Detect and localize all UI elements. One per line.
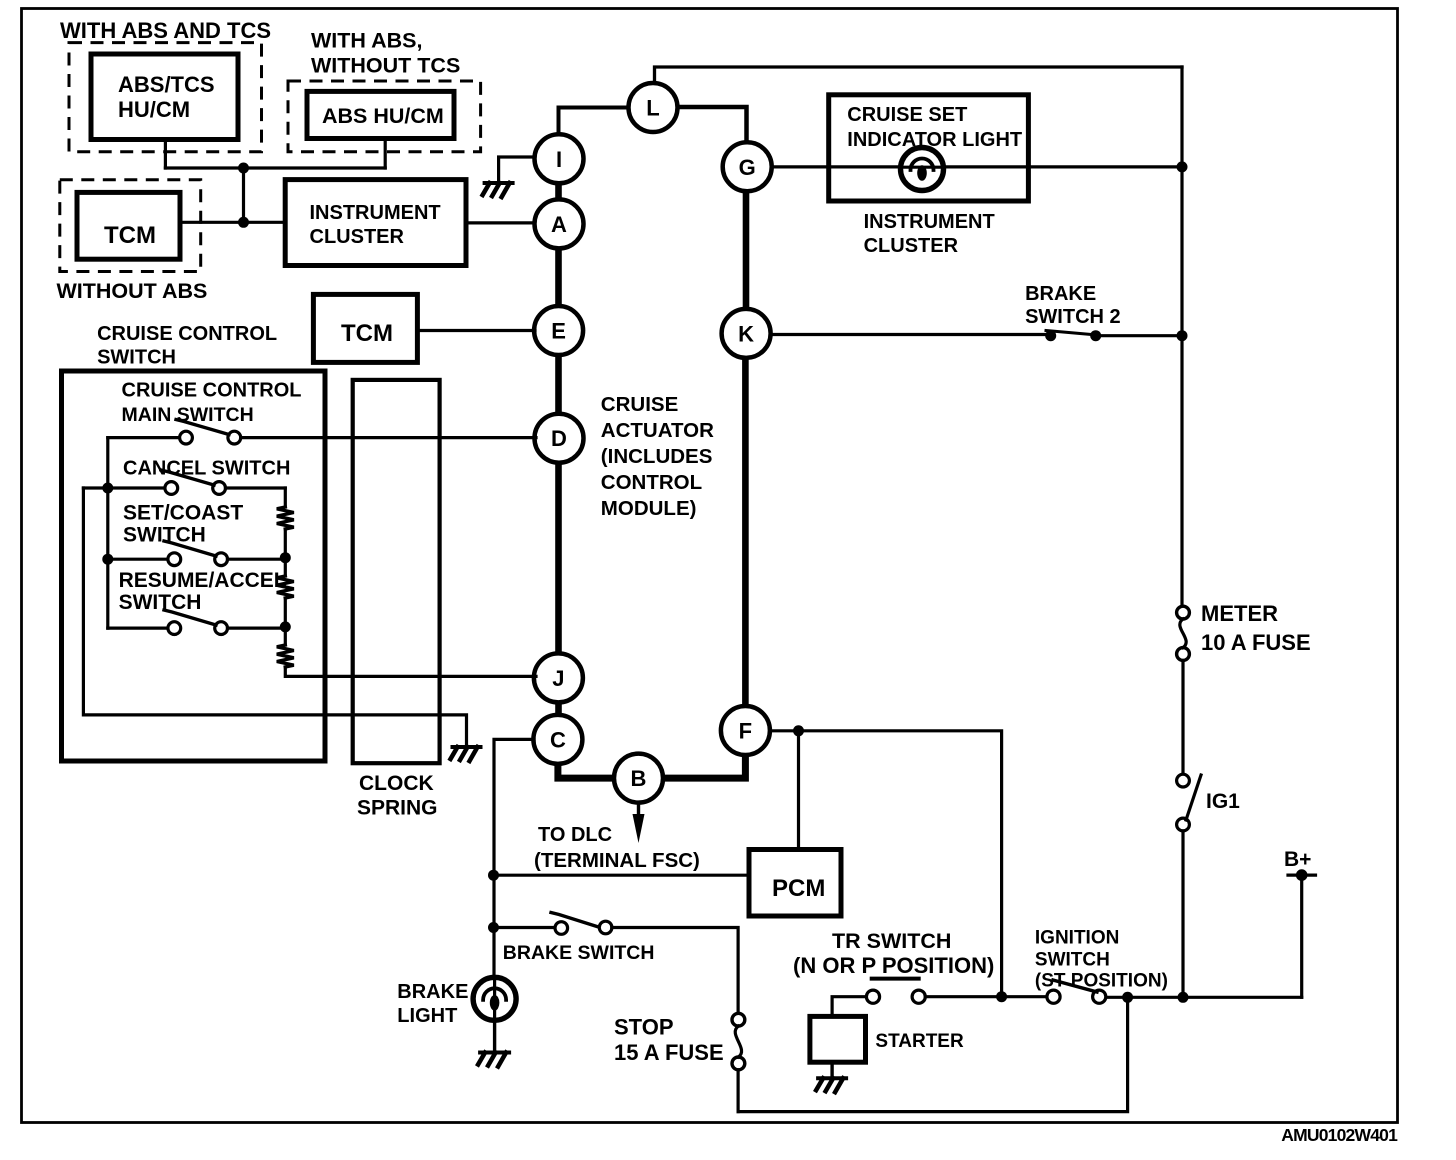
svg-text:10 A FUSE: 10 A FUSE xyxy=(1201,630,1311,655)
fuse: METER 10 A xyxy=(1177,606,1190,619)
switch: brake switch 2 (closed) xyxy=(1046,331,1097,336)
junction: chain/resume-accel xyxy=(280,621,291,632)
svg-text:CRUISE SET: CRUISE SET xyxy=(847,104,967,126)
wire: resistor chain top xyxy=(284,488,287,507)
svg-text:MODULE): MODULE) xyxy=(601,497,697,520)
svg-text:INSTRUMENT: INSTRUMENT xyxy=(864,211,995,233)
switch: set/coast switch xyxy=(168,553,181,566)
wire: B to F xyxy=(661,753,745,778)
wire: ST row horizontal xyxy=(1106,996,1302,999)
block: TCM U2 xyxy=(313,294,417,362)
wire: cancel switch left lead xyxy=(83,486,165,489)
svg-text:INSTRUMENT: INSTRUMENT xyxy=(310,202,441,224)
switch: cancel switch xyxy=(165,482,178,495)
enclosure: cruise control switch xyxy=(62,371,326,761)
block: STARTER xyxy=(810,1016,866,1062)
wire: right bus middle xyxy=(1181,661,1184,775)
wire: resume/accel to resistor chain xyxy=(228,626,286,629)
resistor R1 xyxy=(277,507,294,529)
svg-text:ABS HU/CM: ABS HU/CM xyxy=(322,104,444,128)
junction: brake switch row xyxy=(488,922,499,933)
svg-text:CRUISE CONTROL: CRUISE CONTROL xyxy=(122,380,302,402)
junction: DLC row xyxy=(488,870,499,881)
svg-text:BRAKE SWITCH: BRAKE SWITCH xyxy=(503,942,655,964)
junction: TCM row xyxy=(238,217,249,228)
dashed enclosure: without ABS xyxy=(60,180,201,272)
wire: left column I-A xyxy=(555,181,562,201)
svg-text:CLUSTER: CLUSTER xyxy=(310,226,405,248)
dashed enclosure: with ABS, without TCS xyxy=(288,81,481,152)
svg-text:(N OR P POSITION): (N OR P POSITION) xyxy=(793,953,994,978)
wire: ABS/TCS HU/CM drop xyxy=(164,140,167,169)
arrow: to DLC xyxy=(633,814,645,843)
svg-text:SWITCH: SWITCH xyxy=(119,591,202,614)
svg-text:STOP: STOP xyxy=(614,1015,674,1040)
wire: ground return via clock spring xyxy=(83,488,466,747)
junction: chain/set-coast xyxy=(280,552,291,563)
fuse: STOP 15 A xyxy=(732,1013,745,1026)
svg-text:CLOCK: CLOCK xyxy=(359,772,434,795)
ground: cruise control switch xyxy=(453,745,481,749)
wire: right bus lower xyxy=(1181,831,1184,997)
svg-text:(TERMINAL FSC): (TERMINAL FSC) xyxy=(534,849,700,872)
terminal L xyxy=(629,83,678,132)
wire: TR switch to starter xyxy=(832,997,866,1017)
svg-text:G: G xyxy=(739,155,756,180)
svg-text:SWITCH: SWITCH xyxy=(1035,950,1110,971)
wire: switch common vertical xyxy=(106,438,109,628)
switch: ignition switch ST xyxy=(1047,990,1060,1003)
wire: left column D-J xyxy=(555,461,562,655)
block: TCM U1 xyxy=(77,192,180,259)
wire: main switch left lead xyxy=(108,436,180,439)
wire: instrument cluster to terminal A xyxy=(466,221,536,224)
wire: brake switch 2 to right bus xyxy=(1101,334,1182,337)
wire: main switch to terminal D xyxy=(241,436,536,439)
svg-text:PCM: PCM xyxy=(772,875,825,902)
svg-text:I: I xyxy=(556,147,562,172)
wire: G to indicator lamp xyxy=(772,165,901,168)
svg-text:D: D xyxy=(551,426,567,451)
dashed enclosure: with ABS and TCS xyxy=(69,43,262,152)
svg-text:CANCEL SWITCH: CANCEL SWITCH xyxy=(123,458,290,480)
block: clock spring xyxy=(353,380,440,763)
switch: TR switch (N or P) xyxy=(872,977,919,981)
wire: stop fuse return loop xyxy=(738,997,1128,1111)
terminal B xyxy=(614,754,663,803)
terminal F xyxy=(721,706,770,755)
wire: left column A-E xyxy=(555,246,562,308)
wire: F to K right column xyxy=(742,356,749,708)
terminal E xyxy=(534,306,583,355)
wire: PCM to DLC junction xyxy=(494,874,750,877)
wire: B+ drop xyxy=(1300,875,1303,997)
terminal C xyxy=(533,715,582,764)
svg-text:B: B xyxy=(631,766,647,791)
block: PCM xyxy=(749,850,841,917)
ground: brake light xyxy=(480,1051,509,1055)
ground: starter xyxy=(818,1076,846,1080)
wire: set/coast left lead xyxy=(108,558,168,561)
lamp: cruise set indicator light xyxy=(901,148,944,191)
junction: stop fuse return xyxy=(1122,992,1133,1003)
svg-text:CONTROL: CONTROL xyxy=(601,471,702,494)
svg-text:HU/CM: HU/CM xyxy=(118,97,190,122)
wire: K to G right column xyxy=(743,189,750,311)
svg-text:L: L xyxy=(646,96,659,121)
svg-text:ACTUATOR: ACTUATOR xyxy=(601,419,714,442)
terminal D xyxy=(535,414,584,463)
svg-text:WITHOUT ABS: WITHOUT ABS xyxy=(57,279,208,303)
svg-text:WITHOUT TCS: WITHOUT TCS xyxy=(311,54,460,78)
wire: ABS bus xyxy=(165,166,385,169)
wire: indicator lamp to right bus xyxy=(943,165,1182,168)
svg-text:CLUSTER: CLUSTER xyxy=(864,235,959,257)
svg-text:STARTER: STARTER xyxy=(875,1031,964,1052)
svg-text:SWITCH: SWITCH xyxy=(123,524,206,547)
junction: F row / PCM drop xyxy=(793,725,804,736)
wire: chain R2-R3 xyxy=(284,598,287,645)
block: ABS/TCS HU/CM xyxy=(91,54,238,140)
terminal I xyxy=(535,134,584,183)
wire: starter to ground xyxy=(830,1062,833,1078)
wire: set/coast to resistor chain xyxy=(228,558,286,561)
wire: B to DLC stub xyxy=(637,803,640,814)
svg-text:BRAKE: BRAKE xyxy=(397,981,468,1003)
svg-text:IGNITION: IGNITION xyxy=(1035,928,1119,949)
wire: stop fuse to return loop xyxy=(736,1070,739,1112)
wire: TR switch to ST junction xyxy=(925,995,1001,998)
wire: left column E-D xyxy=(555,353,562,416)
svg-text:J: J xyxy=(552,666,564,691)
wire: F to TR column xyxy=(770,731,1002,991)
svg-text:SWITCH 2: SWITCH 2 xyxy=(1025,306,1121,328)
svg-text:A: A xyxy=(551,212,567,237)
svg-text:TO DLC: TO DLC xyxy=(538,824,612,846)
svg-text:CRUISE: CRUISE xyxy=(601,393,678,416)
svg-text:RESUME/ACCEL: RESUME/ACCEL xyxy=(119,569,287,592)
terminal: B+ xyxy=(1288,873,1316,876)
junction: indicator row / right bus xyxy=(1177,161,1188,172)
svg-text:INDICATOR LIGHT: INDICATOR LIGHT xyxy=(847,129,1022,151)
svg-text:TCM: TCM xyxy=(341,320,393,347)
svg-text:METER: METER xyxy=(1201,601,1278,626)
terminal K xyxy=(722,309,771,358)
svg-text:F: F xyxy=(739,719,752,744)
svg-text:WITH ABS,: WITH ABS, xyxy=(311,29,422,53)
wire: junction to brake switch xyxy=(494,926,556,929)
svg-text:BRAKE: BRAKE xyxy=(1025,283,1096,305)
wire: PCM drop xyxy=(797,731,800,850)
svg-text:ABS/TCS: ABS/TCS xyxy=(118,72,215,97)
wire: resistor chain to terminal J xyxy=(285,667,536,676)
switch: brake switch xyxy=(555,922,568,935)
svg-text:B+: B+ xyxy=(1284,848,1311,871)
wire: right bus upper xyxy=(1180,67,1183,607)
svg-text:TCM: TCM xyxy=(104,222,156,249)
wire: bus drop to TCM row xyxy=(242,168,245,222)
wire: chain R1-R2 xyxy=(284,529,287,576)
switch: resume/accel switch xyxy=(168,622,181,635)
wire: ignition switch left lead xyxy=(1007,995,1047,998)
block: ABS HU/CM xyxy=(307,91,454,138)
wire: TCM to terminal E xyxy=(417,329,535,332)
junction: common/set-coast xyxy=(102,554,113,565)
svg-text:WITH ABS AND TCS: WITH ABS AND TCS xyxy=(60,18,271,43)
svg-text:TR SWITCH: TR SWITCH xyxy=(832,929,951,953)
block: instrument cluster (cruise set indicator) xyxy=(829,95,1029,201)
junction: common/cancel xyxy=(102,483,113,494)
switch: IG1 xyxy=(1177,774,1190,787)
wire: brake light to ground xyxy=(493,1020,496,1053)
resistor R2 xyxy=(277,576,294,598)
wire: K to brake switch 2 xyxy=(771,333,1046,336)
ground: terminal I xyxy=(499,157,536,183)
svg-text:E: E xyxy=(551,319,566,344)
lamp: brake light xyxy=(473,977,516,1020)
wire: C to brake light column xyxy=(494,739,534,980)
svg-text:CRUISE CONTROL: CRUISE CONTROL xyxy=(97,323,277,345)
resistor R3 xyxy=(277,645,294,667)
svg-text:LIGHT: LIGHT xyxy=(397,1005,457,1027)
svg-text:SET/COAST: SET/COAST xyxy=(123,502,243,525)
wire: ABS HU/CM drop xyxy=(384,139,387,169)
wire: brake switch to stop fuse xyxy=(612,928,738,1015)
wire: top bus from L xyxy=(655,67,1183,84)
junction: brake switch 2 / right bus xyxy=(1177,330,1188,341)
junction: right bus bottom xyxy=(1178,992,1189,1003)
junction: TR / ignition ST xyxy=(996,991,1007,1002)
terminal J xyxy=(534,653,583,702)
wire: cancel switch to resistor chain xyxy=(226,486,286,489)
switch: cruise control main switch xyxy=(180,431,193,444)
terminal A xyxy=(535,199,584,248)
wire: left column J-C xyxy=(555,700,562,717)
block: instrument cluster xyxy=(285,180,466,266)
svg-text:SPRING: SPRING xyxy=(357,797,438,820)
junction: ABS bus xyxy=(238,163,249,174)
wire: C to B xyxy=(558,762,616,778)
svg-text:AMU0102W401: AMU0102W401 xyxy=(1281,1125,1398,1145)
terminal G xyxy=(723,142,772,191)
svg-text:IG1: IG1 xyxy=(1206,790,1240,813)
svg-text:SWITCH: SWITCH xyxy=(97,347,176,369)
wire: TCM to instrument cluster xyxy=(180,221,285,224)
svg-text:K: K xyxy=(738,321,754,346)
wire: L to left column xyxy=(559,108,629,137)
svg-text:C: C xyxy=(550,727,566,752)
svg-text:(INCLUDES: (INCLUDES xyxy=(601,445,713,468)
svg-text:15 A FUSE: 15 A FUSE xyxy=(614,1040,724,1065)
wire: resume/accel left lead xyxy=(108,626,168,629)
wire: G to L xyxy=(678,107,747,144)
